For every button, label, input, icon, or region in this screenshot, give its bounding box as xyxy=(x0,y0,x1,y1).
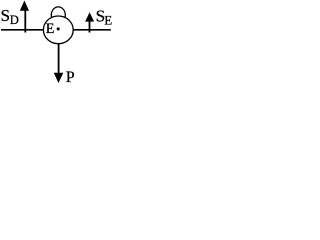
svg-text:S: S xyxy=(1,6,11,25)
svg-text:E: E xyxy=(104,12,112,27)
svg-text:E: E xyxy=(46,21,55,37)
svg-text:D: D xyxy=(10,13,19,27)
svg-text:P: P xyxy=(66,69,75,86)
